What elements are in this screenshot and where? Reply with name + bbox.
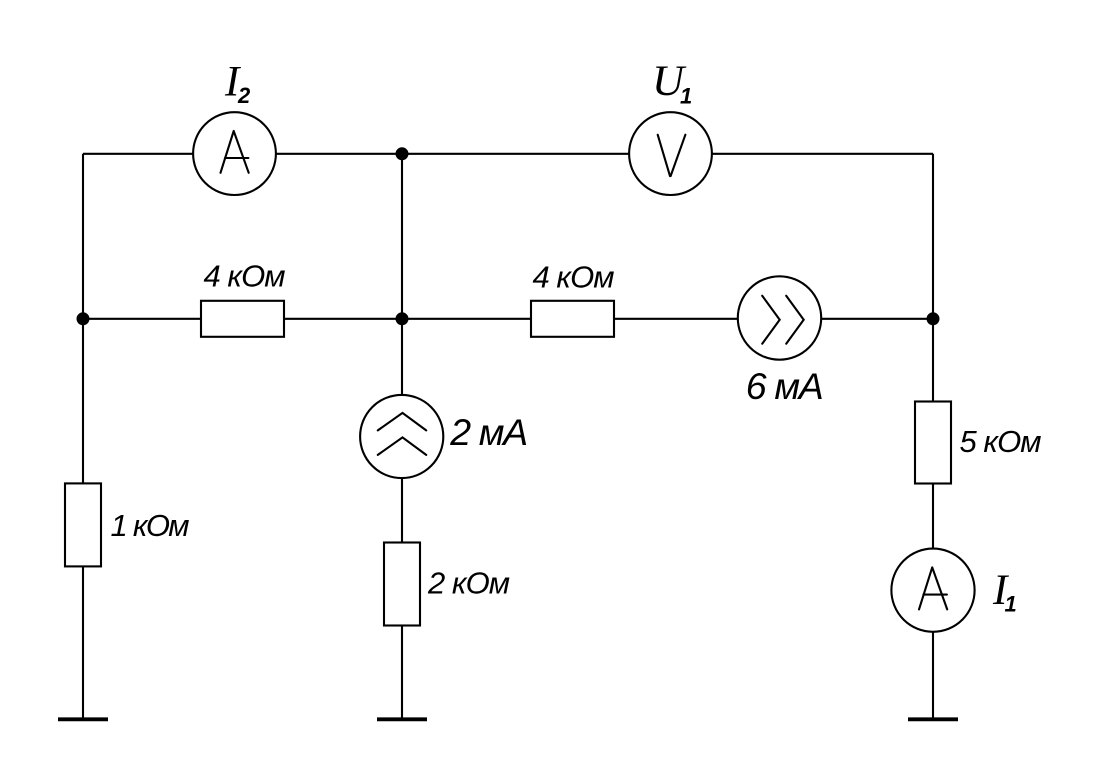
svg-text:2 кОм: 2 кОм: [427, 566, 510, 601]
svg-text:1: 1: [680, 84, 692, 109]
svg-text:1 кОм: 1 кОм: [111, 508, 190, 543]
svg-text:4 кОм: 4 кОм: [533, 260, 615, 295]
svg-text:5 кОм: 5 кОм: [960, 424, 1042, 459]
svg-text:2 мА: 2 мА: [449, 411, 528, 453]
svg-text:1: 1: [1005, 592, 1017, 617]
svg-text:6 мА: 6 мА: [746, 365, 824, 407]
svg-text:2: 2: [237, 83, 251, 108]
svg-text:4 кОм: 4 кОм: [204, 259, 286, 294]
